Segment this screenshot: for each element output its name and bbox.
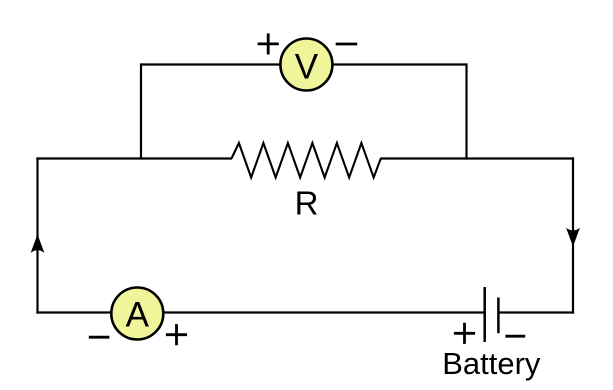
voltmeter plus sign <box>258 33 279 54</box>
wire resistor row right segment <box>380 157 574 159</box>
svg-text:V: V <box>295 48 319 87</box>
current arrow down on right wire <box>566 228 580 247</box>
ammeter plus sign <box>166 324 187 345</box>
wire top voltmeter branch horizontal <box>141 63 467 65</box>
wire right vertical <box>572 157 574 313</box>
wire bottom right segment <box>498 311 574 313</box>
ammeter U2 circle <box>111 288 163 340</box>
voltmeter minus sign <box>336 43 358 46</box>
svg-text:A: A <box>126 296 150 335</box>
wire left vertical <box>36 157 38 313</box>
svg-text:Battery: Battery <box>442 346 541 381</box>
battery plus sign <box>454 323 475 344</box>
wire voltmeter branch left vertical <box>140 63 142 158</box>
svg-text:R: R <box>295 185 319 222</box>
battery minus sign <box>505 335 525 338</box>
battery BT1 long plate <box>483 287 486 342</box>
current arrow up on left wire <box>31 234 45 253</box>
wire voltmeter branch right vertical <box>465 63 467 159</box>
ammeter minus sign <box>89 336 110 339</box>
wire bottom left segment <box>36 311 484 313</box>
battery BT1 short plate <box>497 298 500 334</box>
resistor R1 zigzag <box>232 143 381 178</box>
wire resistor row left segment <box>36 157 232 159</box>
voltmeter U1 circle <box>280 39 332 91</box>
